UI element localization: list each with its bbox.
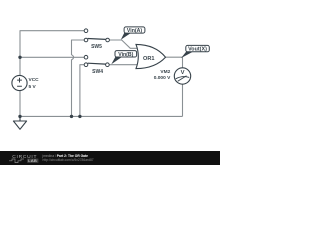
svg-text:OR1: OR1 (143, 56, 155, 62)
wire: VCC bottom to ground rail (19, 91, 21, 117)
node label Vout(X) (181, 45, 209, 58)
wire: SW4 lower throw down to rail (80, 65, 84, 117)
svg-text:Vout(X): Vout(X) (188, 47, 207, 53)
wire: SW5 common to OR1 input A (109, 40, 139, 48)
CircuitLab logo (9, 154, 38, 163)
node label Vin(A) (121, 27, 145, 40)
junction rail at SW5 drop (70, 115, 73, 118)
node label Vin(B) (111, 51, 136, 65)
svg-text:VM2: VM2 (160, 69, 170, 75)
voltage source VCC 5 V (12, 75, 27, 90)
junction rail at SW4 drop (78, 115, 81, 118)
OR gate OR1 (136, 44, 166, 68)
svg-text:VCC: VCC (29, 77, 40, 83)
svg-text:SW4: SW4 (92, 69, 103, 75)
svg-text:SW5: SW5 (91, 44, 102, 50)
wire: VCC fork to SW4 top throw (20, 56, 84, 58)
wire: SW5 lower throw down to rail with hop over VCC fork (72, 40, 85, 116)
footer bar (0, 151, 220, 165)
wire: OR1 output to voltmeter and down to rail (165, 57, 183, 116)
voltmeter VM2 (174, 68, 190, 84)
junction ground rail at VCC (18, 115, 21, 118)
svg-text:0.000 V: 0.000 V (154, 75, 171, 81)
wire: SW4 common to OR1 input B (109, 64, 139, 66)
svg-text:LAB: LAB (28, 158, 37, 163)
svg-text:V: V (181, 70, 185, 76)
wire: ground rail (20, 115, 183, 117)
svg-text:Vin(B): Vin(B) (118, 52, 133, 58)
svg-text:http://circuitlab.com/c/5x2786: http://circuitlab.com/c/5x2786ard87 (43, 158, 94, 162)
ground (13, 116, 26, 129)
junction VCC fork (18, 56, 21, 59)
wire: VCC net top (to SW5 top throw) and left vertical (20, 31, 84, 76)
svg-text:5 V: 5 V (29, 84, 37, 90)
svg-text:Vin(A): Vin(A) (127, 28, 142, 34)
switch SW5 (84, 29, 109, 42)
switch SW4 (84, 55, 109, 66)
